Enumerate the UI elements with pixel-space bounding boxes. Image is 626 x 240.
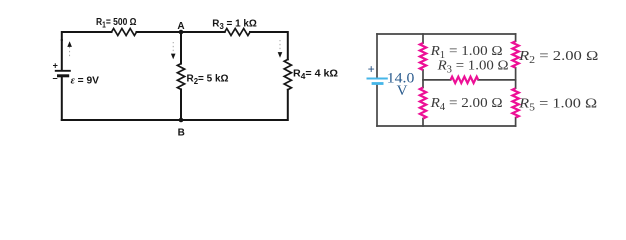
wire R3 to top-right corner, down right side to R4 xyxy=(250,32,288,59)
svg-text:R1= 500 Ω: R1= 500 Ω xyxy=(96,17,137,30)
svg-text:A: A xyxy=(177,21,184,32)
wire R4 to bottom-right corner and bottom rail xyxy=(62,90,288,120)
resistor R5 (right circuit) xyxy=(512,88,518,117)
svg-text:V: V xyxy=(397,83,408,99)
svg-text:−: − xyxy=(52,74,57,84)
wire middle branch bottom stub xyxy=(422,119,424,126)
wire bottom rail xyxy=(377,125,516,127)
svg-text:ε = 9V: ε = 9V xyxy=(71,75,100,86)
svg-text:+: + xyxy=(53,61,58,71)
battery E short thick plate xyxy=(57,74,69,77)
svg-text:R3 = 1.00 Ω: R3 = 1.00 Ω xyxy=(437,59,509,76)
resistor R1 (right circuit) xyxy=(420,43,426,70)
wire middle horizontal: branch to R3 xyxy=(423,79,451,81)
wire middle branch between R1 and R4 xyxy=(422,70,424,88)
wire right side top stub xyxy=(515,34,517,41)
wire top rail xyxy=(377,33,516,35)
wire battery plus plate up to top-left corner xyxy=(61,40,63,70)
current arrow up (left branch) xyxy=(67,41,72,58)
svg-text:R3 = 1 kΩ: R3 = 1 kΩ xyxy=(212,19,256,32)
wire right side bottom stub xyxy=(515,118,517,126)
resistor R4 (right circuit) xyxy=(420,88,426,119)
battery 14.0 V long plate xyxy=(367,77,388,79)
battery E long plate xyxy=(55,70,71,72)
wire R2 down to node B xyxy=(180,89,182,120)
wire middle branch top stub xyxy=(422,34,424,43)
wire middle horizontal: R3 to right side xyxy=(478,79,515,81)
resistor R3 xyxy=(225,29,250,36)
svg-text:R4= 4 kΩ: R4= 4 kΩ xyxy=(293,69,338,82)
wire bottom-left up to battery minus plate xyxy=(61,76,63,120)
wire left side lower (battery down to bottom corner) xyxy=(376,85,378,126)
battery 14.0 V short thick plate xyxy=(372,82,384,85)
resistor R4 xyxy=(284,59,291,89)
node A xyxy=(179,30,184,35)
wire left side upper (top corner down to battery) xyxy=(376,34,378,78)
resistor R3 (right circuit) xyxy=(451,77,479,83)
node B xyxy=(179,118,184,123)
wire R1 to node A xyxy=(137,31,225,33)
resistor R2 xyxy=(177,64,184,90)
svg-text:R2= 5 kΩ: R2= 5 kΩ xyxy=(187,73,229,86)
svg-text:R2 = 2.00 Ω: R2 = 2.00 Ω xyxy=(518,49,599,66)
resistor R2 (right circuit) xyxy=(512,41,518,68)
wire top-left: corner to R1 xyxy=(62,32,112,40)
wire right side between R2 and R5 xyxy=(515,68,517,88)
svg-text:+: + xyxy=(368,63,375,77)
wire node A down to R2 xyxy=(180,32,182,64)
svg-text:R5 = 1.00 Ω: R5 = 1.00 Ω xyxy=(518,97,597,114)
svg-text:B: B xyxy=(178,128,185,139)
current arrow down (middle branch) xyxy=(171,42,176,59)
current arrow down (right branch) xyxy=(278,40,283,58)
resistor R1 xyxy=(112,29,137,36)
svg-text:R4 = 2.00 Ω: R4 = 2.00 Ω xyxy=(430,96,503,113)
